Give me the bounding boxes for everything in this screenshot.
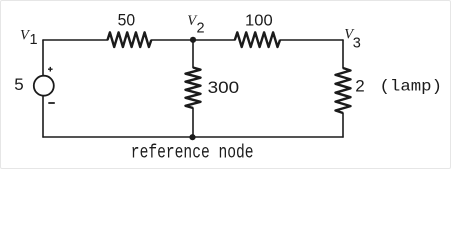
svg-text:2: 2 — [197, 21, 205, 37]
junction dot reference node — [189, 134, 195, 140]
svg-text:300: 300 — [208, 79, 240, 97]
wire top middle (R50 to R100 through node V2) — [151, 39, 235, 41]
svg-text:(lamp): (lamp) — [380, 78, 443, 96]
svg-text:5: 5 — [14, 75, 23, 94]
wire bottom rail (reference node) — [43, 136, 343, 138]
source plus sign — [48, 67, 53, 72]
wire right vertical above lamp resistor — [342, 40, 344, 68]
resistor R50 zigzag — [108, 32, 152, 47]
wire middle vertical above R300 — [192, 40, 194, 68]
source minus sign — [48, 102, 55, 104]
wire left vertical above source — [42, 40, 44, 76]
svg-text:1: 1 — [30, 32, 38, 48]
wire top-left horizontal (V1 to R50) — [43, 39, 108, 41]
voltage source circle — [34, 76, 54, 96]
svg-text:50: 50 — [118, 11, 136, 30]
junction dot node V2 — [190, 37, 196, 43]
wire top right (R100 to V3 corner) — [280, 39, 343, 41]
resistor R2 (lamp) zigzag — [336, 68, 351, 113]
svg-text:100: 100 — [245, 12, 273, 29]
resistor R100 zigzag — [235, 32, 280, 47]
wire left vertical below source — [42, 96, 44, 138]
wire middle vertical below R300 — [192, 108, 194, 137]
svg-text:2: 2 — [355, 76, 364, 95]
svg-text:reference node: reference node — [131, 143, 254, 164]
wire right vertical below lamp resistor — [342, 113, 344, 137]
svg-text:3: 3 — [353, 36, 361, 52]
resistor R300 zigzag — [186, 68, 201, 109]
